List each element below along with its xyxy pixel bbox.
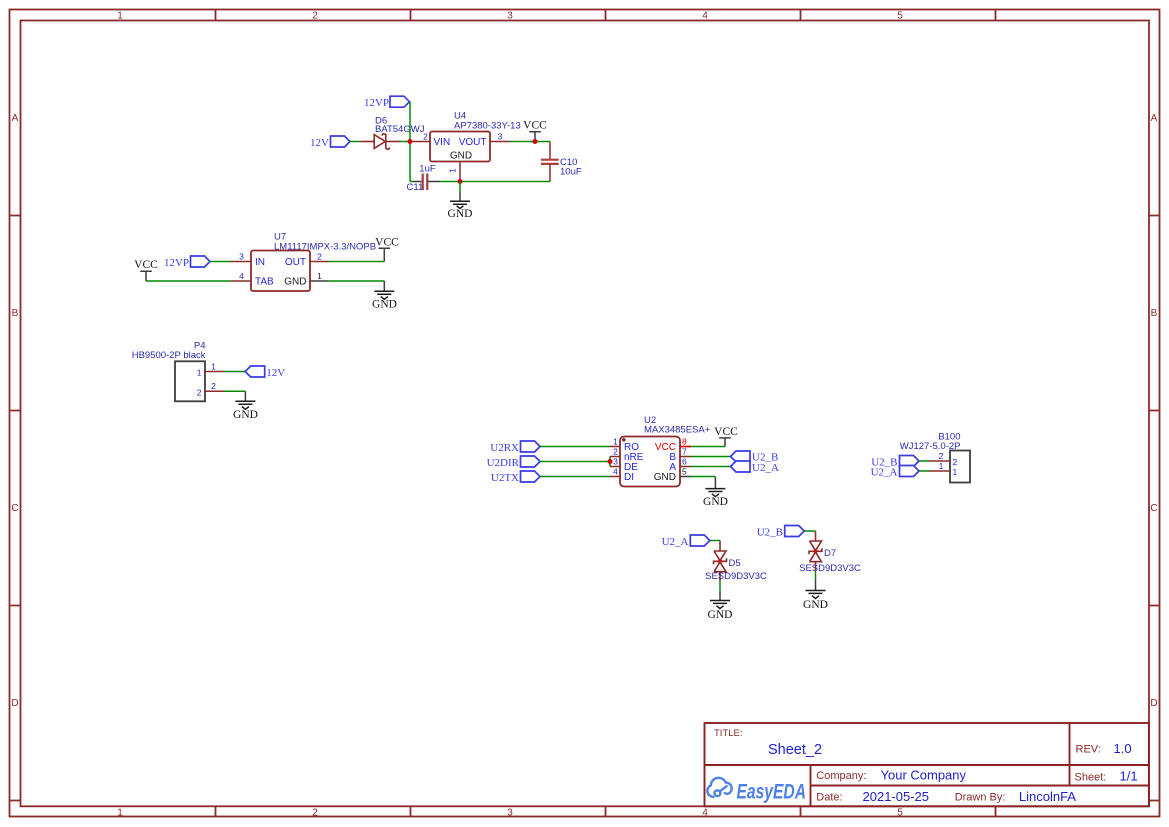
wire pin1 to 12V flag	[224, 371, 245, 373]
power VCC top	[523, 120, 547, 142]
svg-text:A: A	[1151, 113, 1158, 124]
svg-text:2: 2	[317, 251, 322, 261]
wire 12VP to IN	[210, 261, 231, 263]
row ticks right	[1149, 216, 1160, 801]
pin 1 lead RO	[610, 446, 620, 448]
svg-text:VCC: VCC	[375, 236, 399, 248]
svg-text:1: 1	[211, 361, 216, 371]
svg-text:Your Company: Your Company	[881, 768, 967, 783]
svg-text:GND: GND	[703, 496, 728, 508]
net flag 12V	[310, 136, 350, 149]
svg-text:AP7380-33Y-13: AP7380-33Y-13	[454, 121, 521, 132]
svg-text:D: D	[1150, 698, 1157, 709]
svg-text:3: 3	[507, 808, 513, 819]
wire U2DIR to nRE/DE	[540, 457, 610, 467]
wire U2RX to RO	[540, 446, 610, 448]
svg-text:5: 5	[897, 808, 903, 819]
pin 8 lead VCC (red)	[680, 446, 691, 448]
wire 12V to D6	[350, 141, 360, 143]
diode D6 BAT54GWJ	[360, 134, 399, 149]
power VCC left	[134, 259, 158, 281]
svg-text:2: 2	[939, 451, 944, 461]
ground GND (U4)	[448, 182, 473, 221]
pin 4 lead TAB	[231, 280, 252, 282]
svg-text:BAT54GWJ: BAT54GWJ	[375, 124, 425, 135]
svg-text:DI: DI	[624, 472, 634, 483]
pin 5 lead GND (black)	[680, 476, 691, 478]
column ticks top	[216, 10, 996, 21]
wire pin7 to U2_B flag	[691, 456, 731, 458]
net flag U2TX	[491, 471, 540, 484]
wire pin8 to VCC	[691, 446, 725, 448]
junction VCC/VOUT	[533, 139, 538, 144]
svg-text:Sheet:: Sheet:	[1075, 772, 1107, 784]
svg-text:GND: GND	[654, 472, 676, 483]
svg-text:3: 3	[239, 251, 244, 261]
net flag U2_A (D5)	[662, 535, 710, 548]
svg-text:3: 3	[507, 11, 513, 22]
diode D5 SESD9D3V3C	[714, 541, 727, 582]
pin 4 lead DI	[610, 476, 620, 478]
title block	[705, 723, 1149, 806]
svg-text:OUT: OUT	[285, 257, 306, 268]
svg-text:5: 5	[682, 466, 687, 476]
svg-text:VIN: VIN	[434, 137, 451, 148]
svg-text:B: B	[1151, 308, 1158, 319]
svg-text:1: 1	[613, 436, 618, 446]
svg-text:GND: GND	[450, 150, 472, 161]
wire U2_B to pin2	[919, 460, 929, 462]
net flag U2_B (D7)	[757, 526, 804, 539]
net flag 12VP (U7)	[164, 256, 210, 269]
net flag 12VP	[364, 96, 410, 109]
pin 2 lead OUT	[310, 261, 328, 263]
wire D5 to ground	[719, 582, 721, 591]
svg-text:1: 1	[448, 168, 458, 173]
svg-text:6: 6	[682, 456, 687, 466]
svg-text:7: 7	[682, 446, 687, 456]
svg-text:VCC: VCC	[134, 259, 158, 271]
net flag 12V (P4)	[245, 366, 285, 379]
junction at 12VP/VIN	[408, 139, 413, 144]
pin 1 lead (B100)	[929, 470, 950, 472]
net flag U2_A	[731, 461, 779, 474]
svg-text:U2TX: U2TX	[491, 472, 519, 484]
svg-text:Drawn By:: Drawn By:	[955, 792, 1006, 804]
wire GND pin to ground	[328, 280, 384, 282]
svg-text:8: 8	[682, 436, 687, 446]
svg-text:2: 2	[197, 387, 202, 397]
pin 3 lead VOUT	[490, 141, 510, 143]
svg-text:D5: D5	[729, 558, 741, 569]
op-amp U7 box	[251, 251, 310, 292]
column ticks bottom	[216, 806, 996, 816]
svg-text:REV:: REV:	[1076, 744, 1101, 756]
pin 3 lead IN	[231, 261, 252, 263]
svg-text:MAX3485ESA+: MAX3485ESA+	[644, 424, 711, 435]
svg-text:Sheet_2: Sheet_2	[768, 742, 822, 758]
svg-text:1: 1	[117, 11, 123, 22]
svg-text:3: 3	[613, 456, 618, 466]
connector P4 box	[175, 361, 205, 401]
capacitor C10	[541, 142, 559, 182]
svg-text:TITLE:: TITLE:	[714, 728, 743, 739]
svg-text:GND: GND	[803, 599, 828, 611]
wire VCC to TAB	[146, 280, 231, 282]
wire pin5 to ground	[691, 476, 715, 478]
connector B100 box	[950, 451, 970, 483]
svg-text:IN: IN	[255, 257, 265, 268]
wire C10 bottom to GND junction	[460, 181, 550, 183]
junction GND node	[458, 179, 463, 184]
svg-text:WJ127-5.0-2P: WJ127-5.0-2P	[900, 441, 961, 452]
pin 2 lead (B100)	[929, 460, 950, 462]
net flag U2_B (B100)	[871, 456, 919, 469]
svg-text:EasyEDA: EasyEDA	[737, 780, 807, 804]
svg-text:D7: D7	[824, 548, 836, 559]
row ticks left	[10, 216, 21, 801]
svg-text:U2_B: U2_B	[757, 527, 783, 539]
svg-text:C: C	[1150, 503, 1157, 514]
EasyEDA logo	[707, 778, 731, 797]
svg-text:U2RX: U2RX	[490, 442, 519, 454]
ground GND (U7)	[372, 281, 397, 311]
svg-text:2: 2	[211, 381, 216, 391]
power VCC right (U7)	[375, 236, 399, 261]
svg-text:12VP: 12VP	[164, 257, 189, 269]
pin 2 lead nRE	[610, 456, 620, 458]
op-amp U4 box	[430, 132, 490, 162]
net flag U2_B	[731, 451, 779, 464]
svg-text:VOUT: VOUT	[459, 137, 487, 148]
svg-text:1uF: 1uF	[419, 163, 436, 174]
svg-text:C11: C11	[407, 182, 424, 193]
svg-text:HB9500-2P black: HB9500-2P black	[132, 350, 206, 361]
svg-text:SESD9D3V3C: SESD9D3V3C	[705, 571, 767, 582]
svg-text:U2_A: U2_A	[752, 462, 779, 474]
junction U2DIR	[608, 459, 613, 464]
wire 12VP vertical	[409, 102, 411, 182]
svg-text:4: 4	[702, 808, 708, 819]
svg-text:1: 1	[117, 808, 123, 819]
svg-text:Date:: Date:	[816, 792, 842, 804]
svg-text:U2_A: U2_A	[662, 536, 689, 548]
capacitor C11	[407, 163, 461, 193]
svg-text:GND: GND	[708, 609, 733, 621]
svg-text:3: 3	[498, 131, 503, 141]
svg-text:U2_A: U2_A	[871, 467, 898, 479]
net flag U2DIR	[487, 456, 540, 469]
svg-text:D: D	[11, 698, 18, 709]
svg-text:4: 4	[702, 11, 708, 22]
wire U2_A to D5	[710, 540, 720, 542]
wire D6 to VIN	[400, 141, 413, 143]
svg-text:A: A	[12, 113, 19, 124]
pin 7 lead B	[680, 456, 691, 458]
svg-text:4: 4	[613, 466, 618, 476]
wire OUT to VCC	[328, 261, 384, 263]
ground GND (D7)	[803, 581, 828, 611]
svg-text:12V: 12V	[266, 367, 285, 379]
op-amp U2 box	[620, 437, 680, 487]
pin 2 lead VIN	[412, 141, 430, 143]
wire VOUT to C10	[510, 141, 550, 143]
svg-text:10uF: 10uF	[560, 167, 582, 178]
svg-text:1/1: 1/1	[1120, 769, 1138, 784]
svg-text:12V: 12V	[310, 137, 329, 149]
svg-text:2: 2	[312, 11, 318, 22]
svg-text:GND: GND	[233, 409, 258, 421]
svg-text:TAB: TAB	[255, 277, 274, 288]
ground GND (P4)	[233, 391, 258, 421]
wire U2TX to DI	[540, 476, 610, 478]
svg-text:1: 1	[939, 461, 944, 471]
svg-text:VCC: VCC	[523, 120, 547, 132]
wire D7 to ground	[815, 571, 817, 581]
svg-text:U2DIR: U2DIR	[487, 457, 520, 469]
svg-text:1.0: 1.0	[1114, 741, 1132, 756]
pin1 marker dot	[622, 438, 626, 442]
svg-text:GND: GND	[372, 299, 397, 311]
power VCC (U2)	[714, 426, 738, 447]
svg-text:12VP: 12VP	[364, 97, 389, 109]
svg-text:GND: GND	[284, 277, 306, 288]
ground GND (U2)	[703, 477, 728, 509]
svg-text:4: 4	[239, 271, 244, 281]
svg-text:LM1117IMPX-3.3/NOPB: LM1117IMPX-3.3/NOPB	[274, 241, 376, 252]
pin 3 lead DE	[610, 466, 620, 468]
svg-text:2021-05-25: 2021-05-25	[863, 789, 930, 804]
diode D7 SESD9D3V3C	[809, 531, 822, 571]
svg-text:B: B	[12, 308, 19, 319]
svg-text:LincolnFA: LincolnFA	[1019, 789, 1076, 804]
svg-text:Company:: Company:	[816, 770, 866, 782]
wire U2_A to pin1	[919, 470, 929, 472]
wire pin2 to ground	[224, 390, 245, 392]
svg-text:GND: GND	[448, 208, 473, 220]
pin 1 lead GND (black)	[310, 280, 328, 282]
svg-text:2: 2	[423, 131, 428, 141]
wire pin6 to U2_A flag	[691, 466, 731, 468]
wire U2_B to D7	[804, 530, 815, 532]
svg-text:SESD9D3V3C: SESD9D3V3C	[799, 563, 861, 574]
U4 GND pin lead	[459, 162, 461, 182]
svg-text:2: 2	[312, 808, 318, 819]
svg-text:2: 2	[953, 457, 958, 467]
net flag U2_A (B100)	[871, 466, 919, 479]
ground GND (D5)	[708, 591, 733, 621]
net flag U2RX	[490, 441, 540, 454]
pin 6 lead A	[680, 466, 691, 468]
svg-text:1: 1	[317, 271, 322, 281]
svg-text:5: 5	[897, 11, 903, 22]
svg-text:VCC: VCC	[714, 426, 738, 438]
title block text fields	[714, 728, 1138, 804]
svg-text:2: 2	[613, 446, 618, 456]
svg-text:1: 1	[953, 467, 958, 477]
svg-text:1: 1	[197, 368, 202, 378]
svg-text:C: C	[11, 503, 18, 514]
